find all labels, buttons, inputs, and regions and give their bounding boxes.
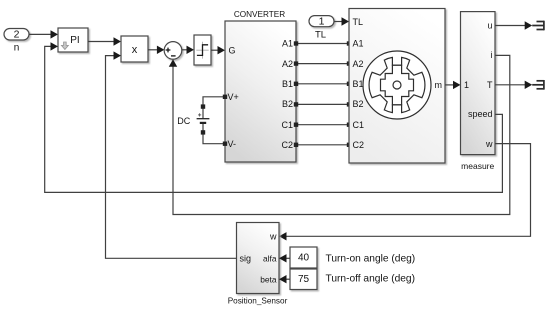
constant 40 <box>290 247 317 268</box>
svg-text:Position_Sensor: Position_Sensor <box>228 296 288 305</box>
wire PI to product <box>88 41 114 43</box>
constant 75 <box>290 269 317 290</box>
svg-text:T: T <box>487 80 493 90</box>
wire product to sum <box>148 49 157 51</box>
svg-text:measure: measure <box>461 161 494 171</box>
svg-text:TL: TL <box>353 17 364 27</box>
motor block <box>349 9 445 164</box>
wire m to measure <box>445 84 454 86</box>
DC wire to V- <box>203 123 225 144</box>
svg-text:speed: speed <box>468 109 493 119</box>
position sensor block <box>237 223 280 294</box>
svg-text:w: w <box>269 232 277 242</box>
motor icon shaft circle <box>393 81 401 89</box>
measure block <box>461 12 496 155</box>
svg-text:Turn-on angle (deg): Turn-on angle (deg) <box>326 253 416 264</box>
wire w to sensor <box>286 144 531 237</box>
sum plus sign <box>166 48 171 53</box>
wire sum to relay <box>182 49 187 51</box>
DC wire to V+ <box>203 97 225 119</box>
wire 75 to beta <box>287 278 291 280</box>
svg-text:x: x <box>132 44 138 56</box>
PI mask arrow badge <box>61 42 68 50</box>
DC battery short plate <box>200 122 206 124</box>
motor icon rotor <box>381 65 414 105</box>
svg-text:u: u <box>487 21 492 31</box>
svg-text:75: 75 <box>298 274 310 285</box>
svg-text:B1: B1 <box>353 79 364 89</box>
svg-text:TL: TL <box>315 29 326 40</box>
svg-text:n: n <box>14 42 20 53</box>
wire u to connector <box>495 25 525 27</box>
wire i feedback <box>173 55 510 214</box>
svg-text:w: w <box>485 139 493 149</box>
svg-text:1: 1 <box>464 80 469 90</box>
V- port square <box>223 142 227 146</box>
svg-text:A1: A1 <box>282 39 293 49</box>
svg-text:C2: C2 <box>353 140 365 150</box>
sum junction <box>164 42 182 60</box>
DC terminal square top <box>201 104 205 108</box>
svg-text:1: 1 <box>319 16 325 28</box>
svg-text:C1: C1 <box>281 120 293 130</box>
svg-text:A2: A2 <box>282 59 293 69</box>
phase wire C2 <box>296 144 349 146</box>
svg-text:A1: A1 <box>353 39 364 49</box>
svg-text:Turn-off angle (deg): Turn-off angle (deg) <box>326 273 415 284</box>
DC battery plus sign <box>198 113 201 116</box>
svg-text:CONVERTER: CONVERTER <box>234 10 285 19</box>
wire 40 to alfa <box>287 257 291 259</box>
svg-text:G: G <box>229 46 236 56</box>
op PI block U1 <box>58 28 88 52</box>
wire speed feedback <box>45 46 503 192</box>
svg-text:i: i <box>491 50 493 60</box>
wire port1 to motor TL <box>334 21 342 23</box>
svg-text:sig: sig <box>240 254 252 264</box>
phase wire A1 <box>296 43 349 45</box>
phase wire C1 <box>296 124 349 126</box>
sum minus sign <box>171 55 176 57</box>
svg-text:V-: V- <box>228 139 237 149</box>
phase wire B1 <box>296 83 349 85</box>
wire T to connector <box>495 84 525 86</box>
input port 2 <box>4 29 29 41</box>
phase wire A2 <box>296 63 349 65</box>
DC battery long plate <box>197 118 210 120</box>
input port 1 <box>309 16 334 27</box>
svg-text:V+: V+ <box>228 92 239 102</box>
svg-text:C1: C1 <box>353 120 365 130</box>
svg-text:B2: B2 <box>353 99 364 109</box>
wire sig to product <box>106 56 237 259</box>
svg-text:B2: B2 <box>282 99 293 109</box>
motor phase terminal squares <box>347 41 351 147</box>
relay icon step <box>197 45 208 56</box>
DC terminal square bottom <box>201 130 205 134</box>
V+ port square <box>223 95 227 99</box>
svg-text:m: m <box>435 80 443 90</box>
connector u <box>532 21 544 31</box>
svg-text:40: 40 <box>298 253 310 264</box>
converter phase terminal squares <box>294 41 298 147</box>
motor icon outer circle <box>363 51 431 119</box>
svg-text:DC: DC <box>177 116 190 126</box>
relay block <box>194 35 211 65</box>
motor icon stator <box>369 57 425 112</box>
product block x <box>121 36 148 62</box>
connector T <box>532 80 544 90</box>
svg-text:A2: A2 <box>353 59 364 69</box>
svg-text:B1: B1 <box>282 79 293 89</box>
svg-text:PI: PI <box>70 35 79 46</box>
wire relay to converter G <box>211 49 218 51</box>
wire port2 to PI <box>29 33 51 35</box>
converter block <box>225 21 296 162</box>
relay icon axes <box>196 42 208 59</box>
svg-text:2: 2 <box>14 29 20 41</box>
phase wire B2 <box>296 103 349 105</box>
svg-text:C2: C2 <box>281 140 293 150</box>
svg-text:alfa: alfa <box>263 254 277 264</box>
svg-text:beta: beta <box>260 274 277 284</box>
